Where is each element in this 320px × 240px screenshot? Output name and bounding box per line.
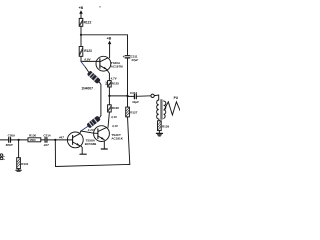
wire R125 to node N1 (108, 87, 110, 96)
node B base wire to Q3 (81, 60, 96, 62)
svg-text:R123: R123 (84, 49, 92, 53)
wire D2 top lead (100, 116, 101, 118)
wire R123 to node B (80, 56, 82, 61)
wire node A to R123 (80, 35, 82, 47)
svg-text:2k7: 2k7 (43, 143, 49, 147)
transistor Q3 (96, 56, 111, 71)
label R127 (130, 110, 138, 114)
resistor R122 (79, 18, 83, 26)
svg-text:AC187M: AC187M (111, 65, 123, 69)
wire N1 down to R126 (108, 96, 110, 105)
svg-text:PU: PU (174, 96, 179, 100)
node IN2 junction (54, 139, 56, 141)
transistor Q2 (94, 126, 110, 142)
node A junction (80, 34, 82, 36)
transformer T1 (157, 100, 166, 120)
wire D2 bottom lead to Q1 collector node (81, 126, 88, 131)
label R122 (84, 21, 92, 25)
wire IN1 down to R131 (18, 140, 20, 158)
label Q1 voltage (58, 136, 64, 140)
wire C314 to Q1 base (47, 139, 68, 141)
label 680P (6, 143, 13, 147)
wire C313 to jack (136, 95, 151, 98)
label C309 (8, 134, 16, 138)
svg-text:R130: R130 (29, 134, 37, 138)
resistor R130 (28, 138, 41, 142)
input terminals (0, 154, 4, 160)
label R125 (104, 81, 119, 85)
label 2k7 (43, 143, 49, 147)
label + C311 (123, 55, 139, 62)
diode D1 1N4007 (87, 70, 101, 84)
label 4.2V (87, 128, 95, 132)
svg-text:AC181K: AC181K (111, 137, 123, 141)
label Q1 type (85, 138, 97, 146)
node +B label top (79, 6, 84, 10)
svg-text:C314: C314 (43, 134, 51, 138)
wire jack to transformer (154, 95, 158, 100)
svg-text:R129: R129 (162, 124, 170, 128)
wire C309 to node IN1 (10, 139, 28, 141)
node N2 junction (126, 95, 128, 97)
svg-text:4,1V: 4,1V (111, 124, 119, 128)
svg-text:BX: BX (104, 81, 108, 85)
capacitor C314 (45, 138, 47, 143)
resistor R123 (79, 47, 83, 57)
svg-text:1500: 1500 (29, 138, 36, 142)
svg-text:R126: R126 (112, 106, 120, 110)
diode lead from node B (81, 62, 86, 68)
label Q2 type (111, 133, 123, 141)
node N1 junction (108, 95, 110, 97)
wire N1 to right bus (109, 95, 127, 97)
resistor R129 (158, 121, 162, 131)
label Q3 type (111, 61, 123, 69)
svg-text:4,1V: 4,1V (110, 115, 118, 119)
svg-text:C313: C313 (130, 91, 138, 95)
svg-text:1N4007: 1N4007 (81, 87, 93, 91)
wire bottom bus (56, 164, 130, 166)
wire IN2 down to bottom bus (54, 140, 56, 167)
ground R131 (16, 169, 21, 172)
svg-text:447: 447 (58, 136, 64, 140)
label R123 (84, 49, 92, 53)
wire Q1 emitter (81, 146, 82, 154)
label R131 (21, 162, 29, 166)
wire node to Q2 base (81, 131, 94, 133)
label PU (174, 96, 179, 100)
wire Q2 emitter (103, 141, 105, 149)
svg-text:R125: R125 (112, 82, 120, 86)
resistor R126 (108, 105, 112, 112)
wire Q1 collector up (79, 131, 82, 133)
ground Q2 (101, 148, 107, 150)
svg-text:R127: R127 (130, 110, 138, 114)
wire R130 to C314 (41, 139, 45, 141)
ground Q1 (80, 153, 86, 155)
label 4.1V upper (110, 115, 118, 119)
dust speck (99, 6, 101, 8)
wire right bus down (127, 96, 129, 107)
capacitor C311 (125, 35, 130, 96)
capacitor C309 (9, 138, 11, 143)
svg-text:47µF: 47µF (130, 58, 138, 62)
label C314 (43, 134, 51, 138)
svg-text:BC548B: BC548B (85, 142, 97, 146)
terminal circle (151, 94, 154, 97)
svg-text:+B: +B (79, 6, 84, 10)
label 4.7V (110, 76, 118, 80)
wire input (0, 139, 9, 141)
label R126 (112, 106, 120, 110)
wire Q3 emitter (107, 70, 110, 81)
wire D1 cathode down (99, 82, 101, 115)
resistor R131 (17, 158, 21, 169)
svg-text:+: + (123, 55, 125, 59)
svg-text:6,8V: 6,8V (84, 58, 91, 62)
label 6.8V (84, 58, 91, 62)
wire R126 to Q2 collector (108, 112, 109, 127)
wire R122 to node A (80, 26, 82, 35)
transistor Q1 (67, 132, 83, 148)
svg-text:680P: 680P (6, 143, 13, 147)
label +B right (107, 36, 112, 40)
label 33uF (132, 100, 139, 104)
label 1N4007 (81, 87, 93, 91)
svg-text:R122: R122 (84, 21, 92, 25)
label C313 (130, 91, 138, 95)
speaker zigzag PU (164, 102, 180, 115)
node IN1 junction (18, 139, 20, 141)
label R129 (162, 124, 170, 128)
svg-text:4,7V: 4,7V (110, 76, 118, 80)
ground speaker (156, 131, 162, 136)
svg-text:33µF: 33µF (132, 100, 139, 104)
label 4.1V lower (111, 124, 119, 128)
svg-text:R131: R131 (21, 162, 29, 166)
power arrow +B1 (79, 10, 83, 18)
svg-text:+B: +B (107, 36, 112, 40)
label R130 (29, 134, 37, 138)
svg-text:C309: C309 (8, 134, 16, 138)
wire transformer to R129 (158, 119, 161, 121)
resistor R125 (108, 81, 112, 87)
capacitor C313 (134, 94, 136, 99)
resistor R127 (126, 107, 130, 117)
wire top rail to right bus (81, 34, 128, 36)
wire R127 to bottom bus (128, 117, 130, 164)
diode D2 (86, 115, 101, 128)
power arrow +B2 (108, 41, 111, 58)
wire C313 branch (128, 95, 135, 97)
